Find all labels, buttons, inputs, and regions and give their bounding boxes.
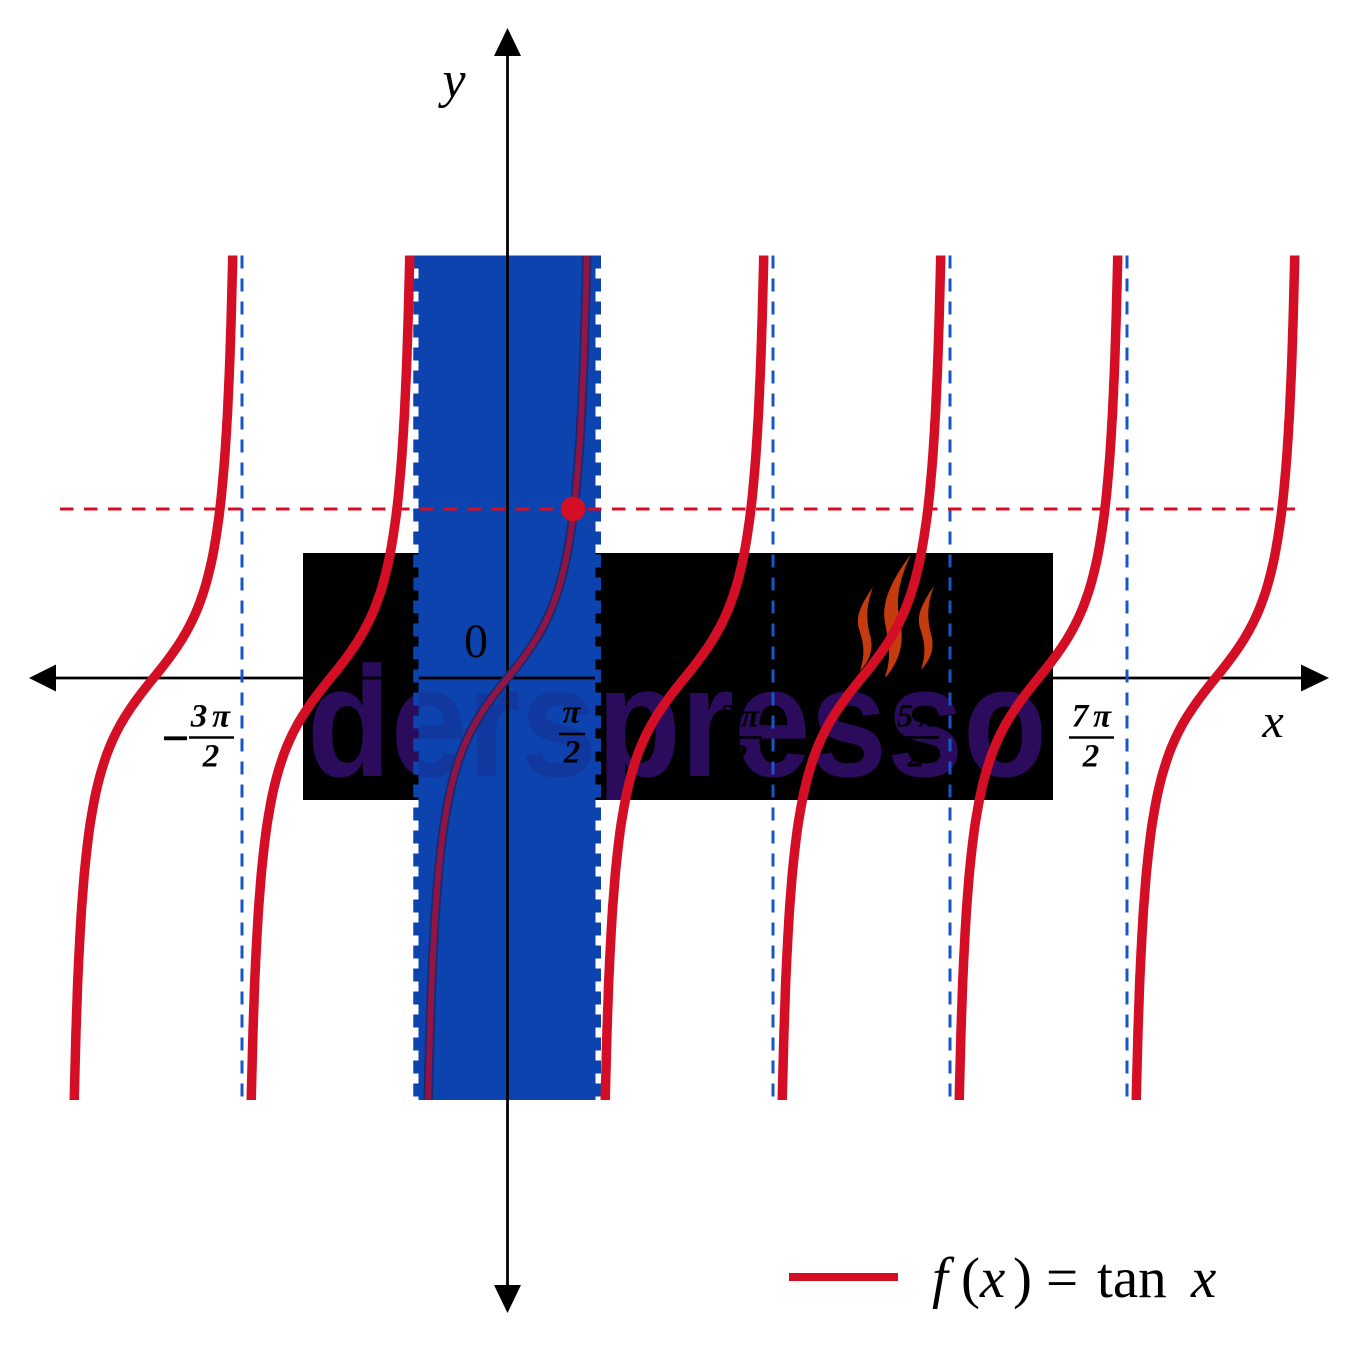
label 5pi/2 — [894, 699, 939, 775]
x-axis — [50, 677, 1304, 680]
tan branch n=-1 — [251, 256, 409, 1101]
label pi/2 — [559, 695, 585, 771]
middle flame lick — [884, 554, 911, 679]
y-axis top arrowhead — [494, 28, 521, 56]
red point on curve — [561, 497, 586, 522]
y-axis bottom arrowhead — [494, 1285, 521, 1313]
tan branch n=2 — [782, 256, 940, 1101]
y-axis — [506, 52, 509, 1288]
svg-text:3: 3 — [719, 699, 737, 735]
asymptote x=5pi/2 — [949, 256, 952, 1101]
svg-text:π: π — [1093, 699, 1112, 735]
svg-text:2: 2 — [202, 739, 220, 775]
svg-text:5: 5 — [897, 699, 914, 735]
tan branch n=1 — [605, 256, 763, 1101]
svg-text:2: 2 — [907, 739, 925, 775]
label 3pi/2 — [717, 699, 762, 775]
tan branch n=-2 — [74, 256, 232, 1101]
asymptote x=7pi/2 — [1126, 256, 1129, 1101]
blue band (-pi/2..pi/2) — [419, 256, 596, 1101]
right flame lick — [919, 586, 934, 670]
svg-text:y: y — [437, 52, 466, 109]
svg-text:0: 0 — [464, 615, 488, 668]
flame icon — [858, 554, 934, 679]
svg-text:π: π — [562, 695, 581, 731]
x-axis left arrowhead — [29, 665, 56, 692]
logo black rectangle — [303, 553, 1053, 800]
tan branch n=0 fringe (inside band) — [428, 256, 586, 1101]
tan branch n=4 — [1136, 256, 1294, 1101]
svg-text:2: 2 — [563, 735, 581, 771]
tan branch n=3 — [959, 256, 1117, 1101]
red dashed horizontal line — [60, 508, 1295, 511]
svg-text:2: 2 — [730, 739, 748, 775]
svg-text:7: 7 — [1072, 699, 1090, 735]
label 7pi/2 — [1069, 699, 1114, 775]
asymptote x=-3pi/2 — [241, 256, 244, 1101]
asymptote x=-pi/2 — [413, 256, 419, 1101]
svg-text:π: π — [918, 699, 937, 735]
asymptote x=3pi/2 — [772, 256, 775, 1101]
tan branch n=0 (maroon inside band) — [428, 256, 586, 1101]
left flame lick — [858, 587, 873, 671]
svg-text:x: x — [1261, 695, 1283, 748]
svg-text:π: π — [741, 699, 760, 735]
x-axis right arrowhead — [1301, 665, 1329, 692]
asymptote x=pi/2 — [595, 256, 601, 1101]
svg-text:π: π — [212, 699, 231, 735]
legend line — [789, 1273, 898, 1281]
label -3pi/2 — [164, 699, 234, 775]
svg-text:3: 3 — [190, 699, 208, 735]
svg-text:2: 2 — [1082, 739, 1100, 775]
